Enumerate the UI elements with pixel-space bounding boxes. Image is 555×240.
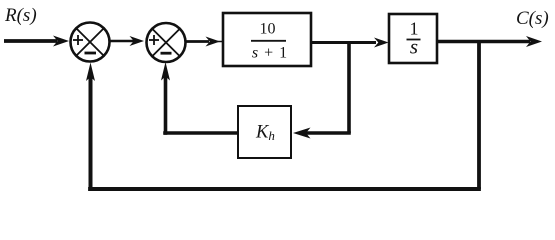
- wire input from R(s) to summing junction S1: [4, 36, 69, 47]
- svg-text:C(s): C(s): [516, 8, 549, 29]
- summing junction S2: [147, 23, 186, 62]
- block G2 transfer function 1/s: [389, 14, 437, 63]
- fraction bar: [251, 40, 286, 42]
- svg-text:10: 10: [260, 21, 276, 38]
- block G1 transfer function 10/(s+1): [223, 13, 311, 66]
- summing junction S1: [71, 23, 110, 62]
- wire S1 to summing junction S2: [110, 36, 144, 46]
- wire inner feedback into Kh block: [293, 128, 351, 139]
- svg-text:s: s: [410, 35, 418, 59]
- wire G1 to block G2 with node A junction: [311, 38, 389, 48]
- wire Kh output to S2 minus input: [161, 62, 238, 135]
- node A junction dot on wire after G1: [347, 43, 351, 134]
- wire outer feedback up to S1 minus input: [86, 63, 95, 192]
- svg-text:s + 1: s + 1: [252, 45, 288, 62]
- block Kh tachometer feedback: [238, 106, 291, 158]
- fraction bar: [407, 39, 421, 41]
- wire S2 to block G1: [186, 37, 223, 47]
- wire outer feedback from node B down and across bottom: [88, 42, 481, 190]
- wire output from G2 to C(s) with node B junction: [437, 36, 542, 47]
- svg-text:R(s): R(s): [4, 5, 37, 26]
